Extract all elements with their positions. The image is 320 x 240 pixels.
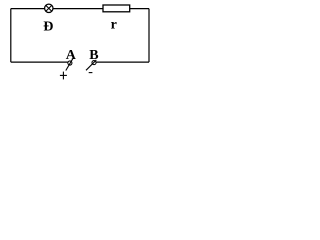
svg-text:Đ: Đ	[43, 19, 53, 34]
wire bottom-right from terminal B	[96, 61, 149, 63]
svg-text:r: r	[111, 18, 117, 33]
wire right	[148, 9, 150, 63]
wire left	[10, 9, 12, 63]
lamp Đ	[45, 4, 53, 12]
terminal A plug	[66, 58, 74, 71]
terminal B plug	[86, 60, 96, 70]
svg-text:B: B	[89, 48, 98, 63]
wire top	[11, 8, 149, 10]
svg-text:A: A	[66, 48, 77, 63]
plus sign	[60, 72, 67, 80]
resistor r	[103, 5, 130, 12]
wire bottom-left to terminal A	[11, 61, 68, 63]
minus sign	[89, 72, 93, 74]
